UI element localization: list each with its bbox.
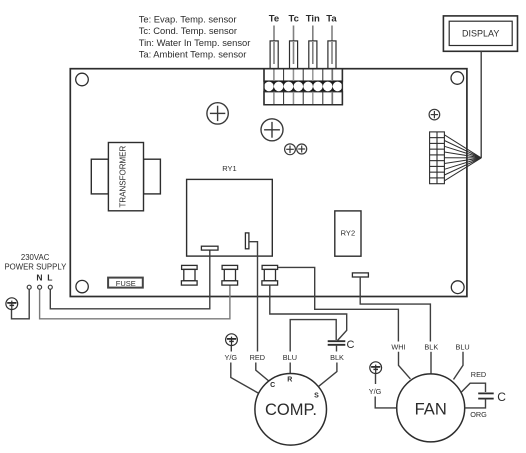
terminal circle N xyxy=(38,285,42,289)
svg-text:RY2: RY2 xyxy=(341,229,355,238)
terminal block xyxy=(264,69,342,105)
svg-text:Tin: Water In Temp. sensor: Tin: Water In Temp. sensor xyxy=(139,37,251,48)
wire L: power L terminal to RY1 contact xyxy=(50,250,210,309)
connector plug Te xyxy=(270,41,278,69)
wire WHI to fan xyxy=(399,352,411,379)
wire display cable xyxy=(480,51,482,158)
fan motor FAN xyxy=(397,374,465,442)
svg-text:N: N xyxy=(36,273,42,283)
svg-text:Y/G: Y/G xyxy=(225,353,238,362)
PCB board outline xyxy=(70,69,467,297)
mounting hole bottom-left xyxy=(76,280,88,292)
wire RY2 contact to BLK (fan) xyxy=(360,277,430,342)
wire BLU comp rail xyxy=(290,320,336,352)
wire cap to BLK comp xyxy=(336,345,338,352)
svg-text:TRANSFORMER: TRANSFORMER xyxy=(119,145,128,207)
display unit box xyxy=(443,16,517,51)
svg-text:BLK: BLK xyxy=(424,343,438,352)
svg-text:WHI: WHI xyxy=(391,343,405,352)
svg-text:C: C xyxy=(347,339,355,351)
svg-text:Ta: Ta xyxy=(326,14,337,25)
wire Tin sensor lead xyxy=(312,26,314,65)
capacitor C comp xyxy=(328,341,346,345)
terminal block screws xyxy=(264,82,342,92)
transformer T1 xyxy=(91,143,160,211)
wire BLU to comp R xyxy=(289,363,291,374)
svg-text:FUSE: FUSE xyxy=(116,279,136,288)
RY2 contact bar xyxy=(352,273,368,277)
wire Te sensor lead xyxy=(273,26,275,65)
wire harness fan-out to display cable xyxy=(444,135,481,181)
screw hole small 1 xyxy=(285,144,296,155)
svg-text:Ta: Ambient Temp. sensor: Ta: Ambient Temp. sensor xyxy=(139,49,247,60)
svg-text:230VAC: 230VAC xyxy=(21,253,50,262)
terminal spool 2 xyxy=(222,265,238,285)
screw hole large 1 xyxy=(207,103,228,124)
terminal circle earth xyxy=(27,285,31,289)
capacitor C fan xyxy=(478,393,494,398)
RY1 pin xyxy=(245,233,249,249)
ribbon connector J1 xyxy=(430,132,445,184)
svg-text:C: C xyxy=(270,382,275,389)
wire earth terminal to ground symbol xyxy=(12,289,30,319)
fuse F1 xyxy=(108,278,143,288)
screw hole near connector xyxy=(429,109,440,120)
terminal circle L xyxy=(48,285,52,289)
wire Tc sensor lead xyxy=(293,26,295,65)
wire BLK to fan xyxy=(430,352,432,374)
terminal block sensor wire stubs xyxy=(274,70,332,105)
svg-text:Te: Evap. Temp. sensor: Te: Evap. Temp. sensor xyxy=(139,13,237,24)
connector plug Ta xyxy=(328,41,336,69)
svg-text:Y/G: Y/G xyxy=(369,387,382,396)
svg-text:COMP.: COMP. xyxy=(265,401,317,419)
svg-text:BLU: BLU xyxy=(455,343,469,352)
RY1 contact bar xyxy=(201,246,218,250)
terminal block column separators xyxy=(274,69,333,105)
svg-text:C: C xyxy=(497,390,506,404)
wire RED fan to capacitor xyxy=(461,383,485,392)
ground symbol power supply xyxy=(6,298,18,310)
wire spool3 bottom to capacitor C comp xyxy=(270,285,347,340)
svg-text:S: S xyxy=(314,392,319,399)
connector plug Tin xyxy=(309,41,317,69)
svg-text:POWER SUPPLY: POWER SUPPLY xyxy=(4,262,67,271)
relay RY2 box xyxy=(335,211,361,256)
mounting hole top-left xyxy=(76,73,89,86)
connector plug Tc xyxy=(290,41,298,69)
screw hole small 2 xyxy=(297,144,307,154)
svg-text:R: R xyxy=(287,377,292,384)
svg-text:BLU: BLU xyxy=(283,353,297,362)
wire Y/G to comp body xyxy=(230,346,232,352)
wire Ta sensor lead xyxy=(331,26,333,65)
svg-text:Tc: Cond. Temp. sensor: Tc: Cond. Temp. sensor xyxy=(139,25,237,36)
ground symbol comp xyxy=(226,334,238,346)
wire Y/G fan upper xyxy=(375,374,377,384)
svg-text:Tc: Tc xyxy=(289,14,299,25)
relay RY1 box xyxy=(187,179,273,256)
svg-text:Tin: Tin xyxy=(306,14,320,25)
wire RY1 pin to RED xyxy=(249,242,258,352)
wire BLK to comp S xyxy=(318,363,337,387)
svg-text:ORG: ORG xyxy=(470,410,487,419)
wire spool3 top to WHI (fan) xyxy=(278,267,399,341)
svg-text:Te: Te xyxy=(269,14,279,25)
ground symbol fan xyxy=(370,362,382,374)
power supply label xyxy=(4,253,67,271)
svg-text:DISPLAY: DISPLAY xyxy=(462,29,499,39)
mounting hole bottom-right xyxy=(451,281,464,294)
compressor motor COMP xyxy=(255,374,327,446)
svg-text:RY1: RY1 xyxy=(222,164,236,173)
svg-text:RED: RED xyxy=(250,353,265,362)
screw hole large 2 xyxy=(261,119,283,141)
mounting hole top-right xyxy=(451,72,464,85)
terminal spool 3 xyxy=(262,265,278,285)
svg-text:FAN: FAN xyxy=(415,400,447,418)
wire Y/G to fan body xyxy=(375,397,397,408)
wire BLU stub to fan xyxy=(454,352,464,380)
legend sensor key text xyxy=(139,13,251,59)
wire N: power N terminal to spool2 xyxy=(40,285,230,319)
wire ORG fan from capacitor xyxy=(465,399,486,408)
wire RED to comp C xyxy=(256,363,270,383)
svg-text:BLK: BLK xyxy=(330,353,344,362)
svg-text:RED: RED xyxy=(471,370,486,379)
terminal spool 1 xyxy=(181,265,197,285)
svg-text:L: L xyxy=(47,273,52,283)
